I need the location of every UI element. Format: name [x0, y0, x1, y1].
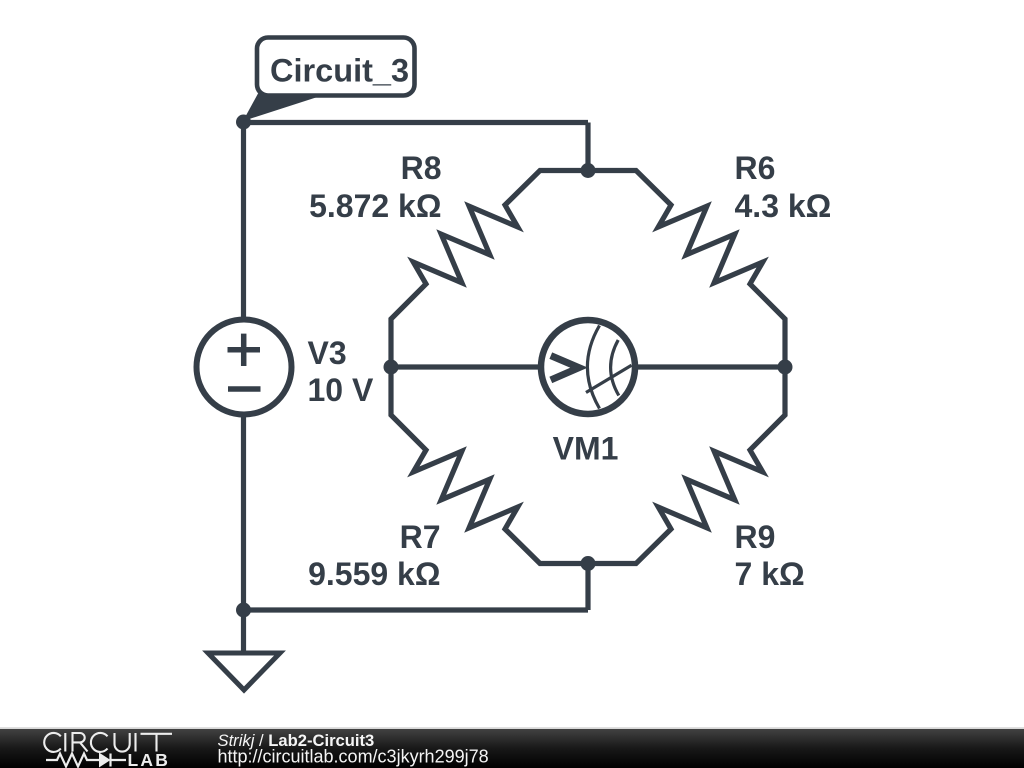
- ground: [208, 653, 280, 690]
- logo letter C1: [44, 733, 61, 752]
- node bridge right: [778, 360, 793, 375]
- svg-text:R9: R9: [735, 519, 776, 555]
- voltage source V3: [197, 320, 292, 415]
- voltmeter scale arc small: [611, 340, 619, 396]
- svg-text:4.3 kΩ: 4.3 kΩ: [735, 188, 832, 224]
- wire voltmeter right: [636, 364, 785, 369]
- node bridge left: [384, 360, 399, 375]
- svg-text:R6: R6: [735, 150, 776, 186]
- wire voltmeter left: [391, 364, 540, 369]
- logo letter C2: [91, 733, 108, 752]
- logo resistor-diode row: [46, 754, 126, 767]
- svg-text:LAB: LAB: [128, 750, 171, 768]
- voltmeter VM1: [541, 320, 635, 414]
- node bridge top: [581, 163, 596, 178]
- svg-text:V3: V3: [308, 335, 347, 371]
- footer bar: [0, 729, 1024, 768]
- svg-text:9.559 kΩ: 9.559 kΩ: [308, 556, 440, 592]
- svg-text:Circuit_3: Circuit_3: [270, 53, 409, 89]
- node bridge bottom: [581, 556, 596, 571]
- svg-text:http://circuitlab.com/c3jkyrh2: http://circuitlab.com/c3jkyrh299j78: [218, 747, 489, 767]
- voltmeter scale arc big: [587, 326, 599, 409]
- wire top-left vertical: [241, 119, 246, 318]
- bubble box Circuit_3: [257, 38, 415, 96]
- logo letter T: [141, 734, 173, 752]
- logo letter U: [115, 733, 130, 752]
- V3 minus sign: [228, 386, 261, 392]
- logo letter I1: [64, 733, 66, 752]
- svg-text:7 kΩ: 7 kΩ: [735, 556, 805, 592]
- footer bar top edge: [0, 727, 1024, 729]
- svg-text:R8: R8: [401, 150, 442, 186]
- node bottom-left: [236, 603, 251, 618]
- svg-text:5.872 kΩ: 5.872 kΩ: [309, 188, 441, 224]
- node top-left: [236, 115, 251, 130]
- resistor R6: [588, 171, 785, 368]
- svg-text:VM1: VM1: [553, 431, 619, 467]
- wire bridge bottom node down: [585, 564, 590, 611]
- V3 plus sign: [228, 334, 261, 366]
- wire bottom horizontal: [244, 607, 589, 612]
- logo letter I2: [134, 733, 136, 752]
- wire into bridge top node: [585, 123, 590, 171]
- voltmeter arrow glyph: [551, 356, 579, 380]
- voltmeter needle: [586, 365, 632, 392]
- svg-text:10 V: 10 V: [308, 372, 374, 408]
- resistor R9: [588, 367, 785, 564]
- wire ground stem: [241, 610, 246, 651]
- resistor R8: [391, 171, 588, 368]
- logo diode triangle: [99, 753, 111, 768]
- wire V3 bottom to bottom-left node: [241, 417, 246, 611]
- svg-text:R7: R7: [400, 519, 441, 555]
- wire top horizontal: [244, 120, 589, 125]
- resistor R7: [391, 367, 588, 564]
- logo letter R: [73, 733, 88, 752]
- bubble tail: [243, 94, 319, 122]
